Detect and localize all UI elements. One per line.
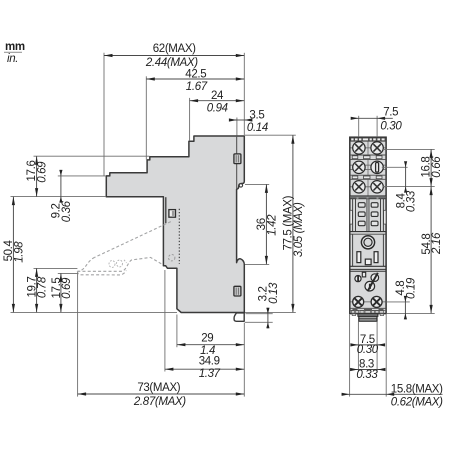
terminal screw row1 left: [353, 142, 365, 154]
svg-text:0.14: 0.14: [247, 122, 268, 134]
terminal clamp lines: [351, 148, 386, 187]
svg-text:0.36: 0.36: [61, 200, 73, 222]
terminal screw row2 left: [353, 161, 365, 173]
svg-text:2.44(MAX): 2.44(MAX): [145, 57, 198, 69]
bottom screws clamp line: [351, 301, 386, 303]
svg-text:42.5: 42.5: [185, 68, 206, 80]
dimension 3.2 / 0.13: [258, 282, 280, 329]
extraction lever shown open (dashed): [77, 222, 171, 275]
dimension 7.5 / 0.30 (bottom): [350, 334, 385, 356]
dimension 4.8 / 0.19: [395, 277, 417, 319]
terminal cell center dividers: [367, 142, 369, 196]
side view upper clip: [234, 154, 241, 164]
dimension 3.5 / 0.14: [229, 110, 268, 135]
svg-text:0.30: 0.30: [380, 120, 402, 132]
svg-text:62(MAX): 62(MAX): [153, 43, 196, 55]
band below connector: [350, 231, 386, 233]
dimension 34.9 / 1.37: [165, 355, 244, 380]
svg-text:0.62(MAX): 0.62(MAX): [391, 397, 443, 409]
keyhole latch: [365, 273, 379, 292]
svg-text:mm: mm: [5, 41, 25, 53]
svg-text:73(MAX): 73(MAX): [137, 382, 180, 394]
side view lower clip: [234, 286, 241, 296]
svg-text:7.5: 7.5: [383, 107, 398, 119]
latch small circle: [355, 276, 361, 282]
dimension 73(MAX) / 2.87(MAX): [78, 382, 245, 408]
center ring: [361, 236, 374, 249]
extension lines (front view): [350, 116, 435, 397]
dimension 24 / 0.94: [190, 90, 245, 115]
dimension 77.5 (MAX) / 3.05 (MAX): [283, 135, 305, 312]
svg-text:3.5: 3.5: [249, 110, 264, 122]
foot side tabs: [352, 314, 355, 316]
latch small bracket: [362, 272, 365, 277]
bottom strip: [350, 307, 386, 309]
svg-text:2.87(MAX): 2.87(MAX): [133, 396, 186, 408]
svg-text:in.: in.: [7, 53, 18, 65]
svg-text:0.13: 0.13: [268, 282, 280, 304]
svg-text:34.9: 34.9: [199, 355, 220, 367]
terminal row separators: [350, 155, 386, 179]
svg-text:24: 24: [211, 90, 224, 102]
terminal divider tabs: [352, 156, 382, 179]
lever embossed mark (dashed): [109, 260, 127, 268]
dimension 54.8 / 2.16: [421, 187, 443, 314]
dimension 36 / 1.42: [256, 184, 278, 264]
side view lever housing inner edge: [165, 197, 167, 223]
connector center divider: [367, 199, 369, 232]
units legend mm/in: [4, 41, 25, 65]
rail groove notch: [239, 184, 242, 187]
front view DIN foot: [358, 314, 378, 321]
bottom screw right: [371, 296, 382, 307]
svg-text:0.66: 0.66: [431, 156, 443, 178]
terminal screw row2 right (slotted): [371, 161, 383, 173]
svg-text:0.19: 0.19: [406, 277, 418, 299]
terminal screw row3 right: [371, 181, 383, 193]
side view pivot (dashed circle): [169, 255, 175, 261]
dimension 7.5 / 0.30 (top): [351, 107, 403, 133]
svg-text:15.8(MAX): 15.8(MAX): [391, 383, 443, 395]
dimension 42.5 / 1.67: [146, 68, 244, 93]
dimension 29 / 1.4: [177, 333, 244, 358]
svg-text:0.69: 0.69: [36, 161, 48, 183]
terminal screw row1 right: [371, 142, 383, 154]
side view flange inner edge: [236, 137, 238, 189]
dimension 15.8(MAX) / 0.62(MAX): [342, 383, 444, 408]
svg-text:1.98: 1.98: [13, 241, 25, 263]
dimension 8.4 / 0.33: [395, 161, 417, 212]
double line: [350, 268, 386, 270]
svg-text:1.67: 1.67: [186, 81, 208, 93]
svg-text:0.78: 0.78: [37, 276, 49, 298]
connector edge notches: [350, 210, 352, 224]
svg-text:0.30: 0.30: [357, 344, 379, 356]
svg-text:2.16: 2.16: [431, 232, 443, 255]
terminal screw row3 left: [353, 181, 365, 193]
side view latch button: [169, 210, 176, 218]
svg-text:0.94: 0.94: [207, 103, 228, 115]
dimension 62(MAX) / 2.44(MAX): [104, 43, 244, 69]
dimension 16.8 / 0.66: [421, 149, 443, 186]
extension lines (side view): [11, 53, 296, 397]
lower slots: [357, 252, 378, 265]
dimension 50.4 / 1.98: [3, 197, 25, 313]
svg-text:0.69: 0.69: [61, 277, 73, 299]
svg-text:0.33: 0.33: [356, 369, 378, 381]
dark band: [350, 196, 386, 199]
side view DIN-rail foot: [234, 313, 244, 321]
svg-text:1.42: 1.42: [266, 214, 278, 236]
dimension 17.6 / 0.69: [26, 156, 48, 196]
svg-text:1.37: 1.37: [199, 368, 221, 380]
dimension 8.3 / 0.33: [350, 358, 385, 381]
svg-text:3.05 (MAX): 3.05 (MAX): [293, 202, 305, 257]
dimension 17.5 / 0.69: [51, 273, 73, 312]
side view body outline: [106, 136, 244, 313]
connector section rails: [353, 199, 384, 232]
svg-text:0.33: 0.33: [406, 190, 418, 212]
contact slots: [358, 203, 378, 226]
front view top tab strip: [351, 138, 385, 141]
front view body: [350, 137, 386, 313]
side view hidden edge (dotted): [178, 209, 180, 264]
dimension 9.2 / 0.36: [51, 170, 73, 222]
dimension 19.7 / 0.78: [26, 268, 48, 312]
svg-text:29: 29: [201, 333, 213, 345]
bottom screw left: [353, 296, 364, 307]
ring section sides: [352, 234, 354, 266]
